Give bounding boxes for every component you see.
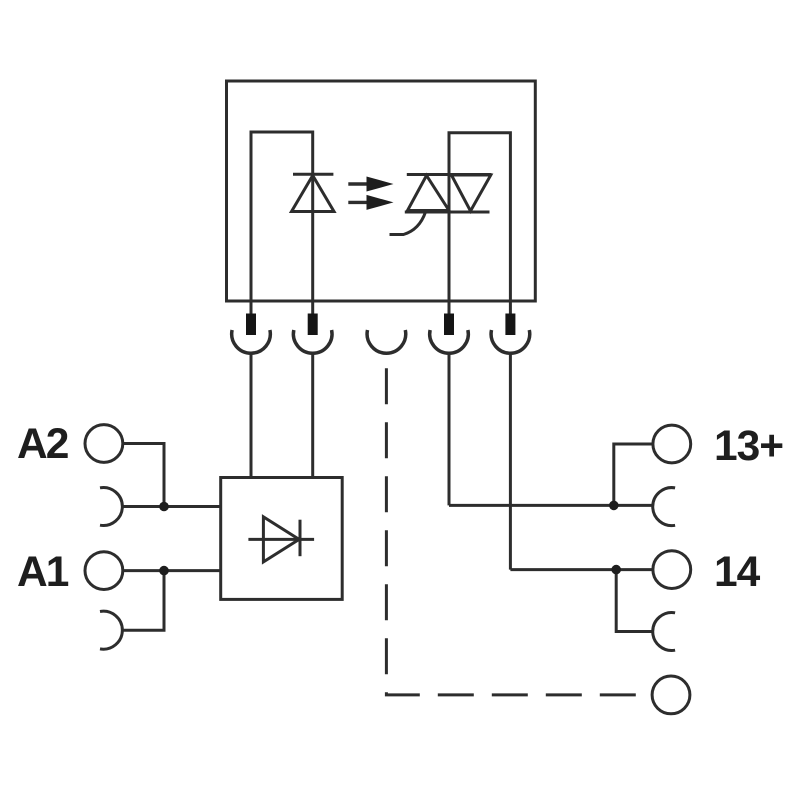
wire input loop (pin1 up, across, down through LED to pin2) — [251, 132, 313, 314]
dashed wire from middle socket to bottom terminal — [386, 368, 651, 695]
terminal socket 3 (middle, unused) — [367, 330, 406, 353]
svg-text:A1: A1 — [17, 549, 69, 596]
node 13+ junction — [609, 501, 619, 511]
wire terminal 1 to rectifier — [250, 353, 253, 477]
LED D1 — [292, 174, 335, 211]
light arrow 2 — [348, 195, 393, 210]
svg-text:A2: A2 — [17, 421, 68, 468]
socket A2 — [100, 488, 122, 526]
bottom terminal circle — [652, 676, 690, 714]
terminal socket 1 — [232, 330, 271, 353]
wire output loop (pin4 up through triac, across, down to pin5) — [449, 133, 510, 314]
terminal socket 2 — [293, 330, 332, 353]
socket 14 — [653, 613, 675, 651]
terminal A1 circle — [85, 552, 123, 590]
wire terminal 4 down — [448, 353, 451, 505]
optocoupler module box U1 — [227, 81, 536, 301]
terminal 13+ circle — [653, 425, 691, 463]
node A2 junction — [159, 502, 169, 512]
wire 14 net from terminal 5 — [510, 568, 653, 571]
socket 13+ — [653, 488, 675, 526]
terminal pin 5 — [505, 314, 515, 336]
gate lead of triac — [390, 212, 426, 235]
wire A2 socket to rectifier — [123, 505, 221, 508]
terminal socket 4 — [430, 330, 469, 353]
terminal 14 circle — [653, 551, 691, 589]
wire branch to 14 socket — [616, 570, 652, 632]
terminal A2 circle — [85, 425, 123, 463]
triac Q1 — [405, 175, 492, 213]
svg-text:14: 14 — [714, 549, 761, 596]
wire A1 circle to rectifier — [123, 569, 221, 572]
light arrow 1 — [348, 177, 393, 192]
node 14 junction — [611, 565, 621, 575]
rectifier box — [221, 478, 343, 600]
terminal pin 4 — [444, 314, 454, 336]
wire branch to 13+ circle — [614, 444, 653, 505]
node A1 junction — [159, 566, 169, 576]
terminal pin 2 — [308, 314, 318, 336]
socket A1 — [100, 611, 122, 649]
wire A1 socket to junction — [123, 571, 164, 631]
diode D2 inside rectifier — [248, 517, 314, 562]
wire terminal 5 down — [509, 353, 512, 569]
wire A2 circle to junction — [123, 444, 165, 507]
terminal socket 5 — [491, 330, 530, 353]
wire terminal 2 to rectifier — [311, 353, 314, 477]
svg-text:13+: 13+ — [714, 423, 783, 470]
wire 13+ net from terminal 4 — [449, 504, 653, 507]
terminal pin 1 — [246, 314, 256, 336]
